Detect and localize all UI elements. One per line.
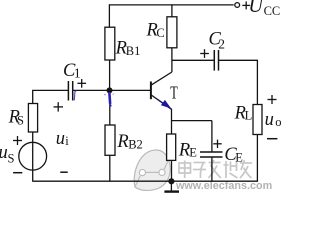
svg-text:R: R [116,132,128,152]
bottom rail wire [33,180,258,182]
resistor RL [253,105,262,135]
wire C1 to base [73,89,151,91]
svg-text:B2: B2 [128,138,143,152]
top rail wire to +Ucc [109,4,234,6]
svg-text:u: u [265,110,274,130]
node base junction dot [107,87,113,93]
ground symbol [170,181,172,191]
plus of CE [213,140,221,148]
svg-text:1: 1 [74,66,81,81]
wire C2 to RL branch [219,60,258,104]
resistor RE [167,134,176,160]
wire RB2 to bottom rail [109,155,111,181]
svg-text:o: o [275,115,281,129]
svg-text:L: L [245,109,253,123]
svg-text:E: E [235,151,243,165]
resistor RS [28,104,37,133]
svg-text:T: T [170,83,178,103]
wire base node to RB2 [109,90,111,125]
resistor RB2 [105,125,115,155]
emitter blue ink streak [158,100,171,109]
svg-text:S: S [17,113,24,127]
wire source branch corner to C1 [33,90,68,103]
blue ink drip under base node [108,93,111,103]
transistor collector line [151,72,172,85]
supply terminal circle [235,3,240,8]
transistor T base bar [150,82,152,100]
source uS circle [19,142,47,170]
svg-text:u: u [56,129,65,149]
watermark chinese characters [179,160,252,178]
capacitor C2 [213,50,215,71]
emitter arrow (blue ink) [161,100,171,109]
minus of uS [13,172,22,174]
svg-text:C: C [156,26,164,40]
wire CE to bottom rail [211,157,213,181]
svg-text:2: 2 [218,37,225,52]
ground node dot [168,178,174,184]
transistor emitter line [151,95,171,109]
plus of C2 [200,49,209,58]
resistor RB1 [105,27,115,60]
svg-text:CC: CC [264,4,281,18]
svg-text:B1: B1 [126,44,141,58]
plus of ui [54,102,64,111]
wire collector up to RC [171,48,173,72]
wire RB1 to base node [109,60,111,90]
capacitor C1 [67,81,69,101]
wire collector node to C2 [172,59,214,61]
plus of C1 [77,79,86,88]
wire RS to source [32,132,34,142]
wire RC top to rail [171,4,173,16]
svg-text:E: E [189,145,197,159]
blue ink mark at C1 [74,90,77,100]
watermark logo pen nib [134,150,170,190]
label +Ucc [242,1,250,9]
resistor RC [167,17,177,48]
minus of uo [267,138,277,140]
wire RL to bottom rail [256,135,258,182]
wire through source to bottom rail [32,142,34,181]
svg-text:S: S [8,151,15,165]
capacitor CE [200,151,223,153]
plus of uS [13,136,22,145]
wire emitter to RE [171,109,173,134]
wire emitter node to CE [172,120,212,122]
wire CE branch [211,121,213,152]
minus of ui [60,171,67,173]
svg-text:U: U [248,0,264,17]
plus of uo [268,95,277,104]
wire RE to ground node [171,160,173,181]
svg-text:i: i [65,134,69,148]
wire RB1 branch top [108,4,110,27]
